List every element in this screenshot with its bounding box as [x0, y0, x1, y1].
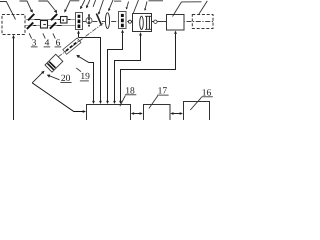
modulator 1 [76, 13, 83, 30]
beam dash inside component 4 [43, 24, 46, 26]
axis solid segment telescope to circle [152, 21, 154, 23]
beam dash inside component 6 [62, 19, 64, 21]
top leader to lens [109, 0, 113, 10]
component 6 square [61, 17, 68, 24]
component 4 square [41, 21, 48, 29]
telescope box [133, 14, 152, 32]
wire telescope to controller [115, 36, 141, 103]
modulator 2 [119, 12, 127, 29]
telescope second element [146, 16, 148, 29]
bus 18-17 [133, 113, 141, 115]
bus 17-16 [172, 113, 180, 115]
top leader to mirror pair 3 [20, 1, 32, 11]
top leader to telescope element [145, 1, 147, 8]
mirror pair 3 lower slash [27, 23, 33, 29]
top label lead-in 15 [182, 1, 202, 3]
box 17 [144, 105, 171, 123]
small circle right of telescope [154, 20, 157, 23]
controller box 18 [87, 105, 131, 123]
mirror pair 3 upper slash [28, 14, 34, 21]
beam splitter plate [96, 14, 101, 26]
top leader to square 6 [65, 0, 70, 11]
beam into 20 with arrow [32, 72, 43, 83]
top leader into box 15 [173, 2, 182, 17]
main optical axis (dash-dot) [83, 21, 214, 23]
component 15 box (solid) [167, 15, 185, 31]
mirror pair 5 lower slash [50, 22, 56, 28]
telescope lens [140, 16, 144, 29]
axis solid segment circle to box 15 [157, 21, 166, 23]
mirror pair 5 upper slash [51, 14, 57, 20]
top leader to splitter [99, 0, 103, 13]
small circle left of telescope [128, 20, 131, 23]
wire modulator 2 to controller [108, 33, 123, 102]
folded output beam to controller [32, 83, 83, 112]
component 19 tilted cell [63, 38, 81, 54]
laser box (dashed) [2, 15, 25, 35]
wire laser supply [13, 38, 15, 121]
top leader to modulator 1 [81, 0, 85, 7]
top label lead-in 7 [71, 0, 79, 2]
top leader to modulator 2 [127, 2, 129, 8]
lens 1 [105, 13, 109, 29]
beam line lower [25, 25, 75, 27]
beam line upper [25, 19, 75, 21]
wire box 15 to controller [121, 34, 176, 102]
sampled beam diagonal (dash-dot) [57, 23, 103, 57]
top label lead-in 9 [114, 0, 121, 2]
top leader to telescope box [133, 0, 138, 14]
box 16 [184, 102, 210, 123]
top leader to mirror pair 5 [38, 1, 56, 11]
leader into laser box [0, 2, 16, 20]
top leader to aperture [87, 0, 90, 6]
wire modulator 1 to controller [79, 38, 101, 103]
aperture circle [86, 18, 92, 24]
top leader into output dashed box [199, 1, 208, 15]
component 20 tilted mirror box [45, 54, 63, 72]
top label lead-in 14 [149, 0, 164, 2]
output box (dashed) [192, 15, 213, 29]
top leader short [93, 0, 96, 7]
wire mirror 20 to controller [77, 56, 94, 103]
